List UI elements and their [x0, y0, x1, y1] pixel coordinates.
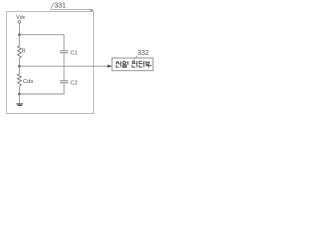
svg-text:R: R — [22, 48, 26, 54]
wire R to node B — [18, 58, 20, 66]
svg-text:Cds: Cds — [23, 79, 33, 85]
resistor R — [18, 46, 22, 58]
wire node B to resistor Cds — [18, 66, 20, 74]
block boundary box 331 (sensing circuit) — [7, 12, 94, 114]
wire C1 to C2 (through cross junction) — [63, 53, 65, 80]
leader line for 332 — [134, 56, 138, 60]
capacitor C2 — [60, 81, 68, 83]
svg-text:332: 332 — [137, 50, 149, 57]
wire node A to capacitor C1 — [19, 35, 64, 50]
svg-text:C1: C1 — [70, 50, 77, 56]
arrowhead into box 332 — [108, 65, 112, 68]
hangul glyph 판 (pan) — [132, 61, 137, 67]
svg-text:Vdc: Vdc — [16, 15, 26, 21]
terminal Vdc — [18, 20, 21, 23]
svg-text:C2: C2 — [70, 80, 77, 86]
box 332 voltage determination unit — [112, 58, 153, 71]
wire node B to voltage determination unit — [19, 65, 108, 67]
wire node C to ground — [18, 94, 20, 103]
svg-text:331: 331 — [54, 3, 66, 10]
leader line for 331 — [51, 3, 92, 10]
node A junction — [18, 33, 21, 36]
wire Vdc terminal to node A — [18, 23, 20, 35]
hangul glyph 부 (bu) — [146, 61, 152, 68]
wire node A to resistor R — [18, 35, 20, 46]
resistor Cds — [18, 74, 22, 87]
wire Cds to node C — [18, 86, 20, 94]
ground — [16, 104, 23, 106]
hangul glyph 압 (ap) — [123, 61, 128, 67]
hangul glyph 단 (dan) — [139, 61, 144, 67]
hangul glyph 전 (jeon) — [116, 61, 121, 67]
leader arrowhead 331 — [90, 9, 94, 12]
node B junction — [18, 65, 21, 68]
wire C2 to node C — [19, 83, 64, 94]
node C junction — [18, 93, 21, 96]
capacitor C1 — [60, 51, 68, 53]
